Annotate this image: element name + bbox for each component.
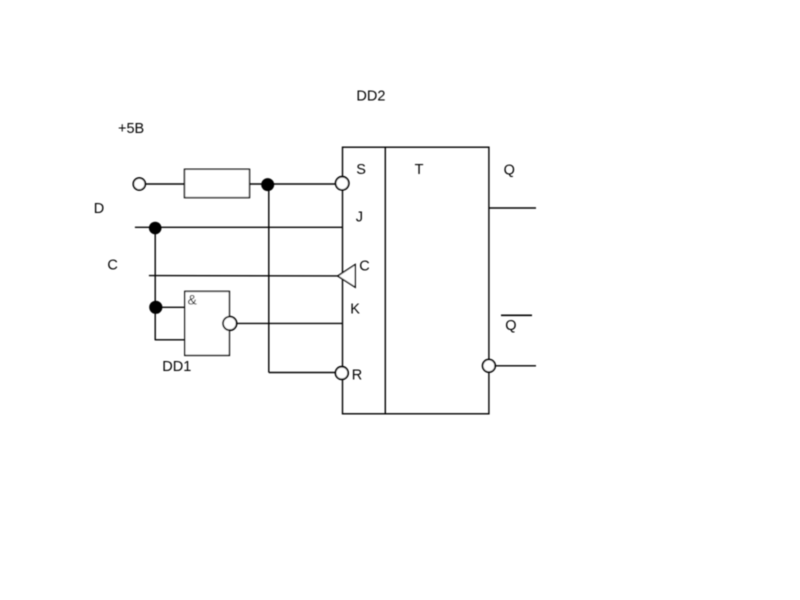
overbar of Q-bar label <box>501 314 532 316</box>
svg-text:C: C <box>107 258 117 274</box>
svg-text:DD2: DD2 <box>356 89 385 105</box>
junction dot at NAND upper input <box>149 301 162 314</box>
svg-text:K: K <box>350 302 360 318</box>
svg-text:D: D <box>94 201 104 217</box>
junction dot on D line <box>149 222 162 235</box>
svg-text:R: R <box>352 367 362 383</box>
wire from resistor to S input <box>250 183 337 185</box>
input terminal circle <box>133 178 145 190</box>
output circle on Q-bar <box>483 360 496 373</box>
svg-text:Q: Q <box>505 318 516 334</box>
wire NAND upper input <box>155 306 185 308</box>
svg-text:Q: Q <box>504 162 515 178</box>
wire NAND lower input <box>155 339 185 341</box>
svg-text:T: T <box>415 162 424 178</box>
NAND output bubble <box>223 317 237 331</box>
svg-text:C: C <box>359 258 369 274</box>
clock triangle <box>338 265 356 288</box>
wire from terminal to resistor <box>145 183 185 185</box>
NAND gate DD1 box <box>185 291 230 355</box>
R inversion circle <box>336 367 349 380</box>
svg-text:J: J <box>356 209 363 225</box>
wire NAND output to K input <box>237 322 343 324</box>
resistor R1 <box>185 169 250 197</box>
flip-flop divider line <box>384 147 386 414</box>
svg-text:DD1: DD1 <box>162 359 191 375</box>
flip-flop DD2 box <box>343 147 489 414</box>
wire Q output <box>489 207 536 209</box>
wire C input line <box>149 275 339 277</box>
junction dot at resistor output <box>261 178 274 191</box>
S inversion circle <box>336 177 349 190</box>
svg-text:+5B: +5B <box>118 121 144 137</box>
wire Q-bar output <box>496 365 536 367</box>
wire D input line <box>135 226 343 228</box>
wire vertical from D junction to NAND lower input <box>154 227 156 340</box>
svg-text:S: S <box>356 162 366 178</box>
wire vertical from junction down to R line <box>268 184 270 373</box>
wire horizontal to R input <box>269 372 336 374</box>
svg-text:&: & <box>188 292 198 308</box>
